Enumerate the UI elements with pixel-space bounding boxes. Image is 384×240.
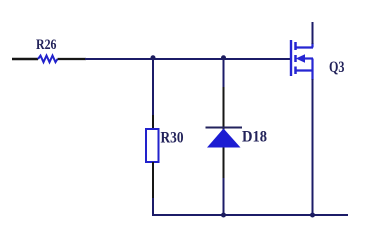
transistor Q3 channel top segment: [294, 42, 297, 50]
svg-text:D18: D18: [242, 129, 267, 146]
transistor Q3 channel middle segment: [294, 55, 297, 62]
wire: R30 branch upper black part: [152, 115, 154, 130]
diode D18 triangle: [207, 129, 241, 148]
node junction bottom Q3 source: [310, 213, 315, 218]
wire: D18 branch upper navy: [223, 59, 225, 88]
wire: top horizontal navy to gate: [85, 58, 290, 60]
svg-text:Q3: Q3: [329, 59, 345, 76]
wire: source pin navy part: [312, 79, 314, 215]
node junction at D18 branch: [221, 55, 226, 60]
wire: R30 branch lower navy part: [152, 198, 154, 215]
wire: source pin blue part: [311, 59, 313, 81]
diode D18 cathode bar: [206, 127, 243, 129]
resistor R26 zigzag: [38, 56, 58, 63]
wire: R30 branch lower black part: [152, 162, 154, 199]
transistor Q3 source connect: [296, 69, 313, 71]
wire: R30 branch upper: [152, 59, 154, 116]
transistor Q3 bulk arrow: [296, 54, 305, 63]
wire: input stub left of R26 (black): [12, 58, 38, 60]
wire: D18 branch lower navy: [223, 178, 225, 215]
node junction bottom D18: [221, 213, 226, 218]
transistor Q3 drain connect: [296, 46, 313, 48]
transistor Q3 gate bar: [290, 40, 292, 76]
wire: drain pin blue part: [311, 43, 313, 48]
wire: drain pin navy part: [312, 22, 314, 44]
transistor Q3 channel bottom segment: [294, 67, 297, 75]
wire: D18 branch middle black: [223, 87, 225, 179]
transistor Q3 bulk connect: [301, 57, 313, 59]
wire: bottom horizontal navy: [153, 214, 348, 215]
svg-text:R30: R30: [161, 130, 184, 147]
svg-text:R26: R26: [36, 37, 57, 53]
wire: black segment right of R26: [58, 58, 87, 60]
node junction at R30 branch: [151, 55, 156, 60]
resistor R30 box: [146, 129, 159, 162]
